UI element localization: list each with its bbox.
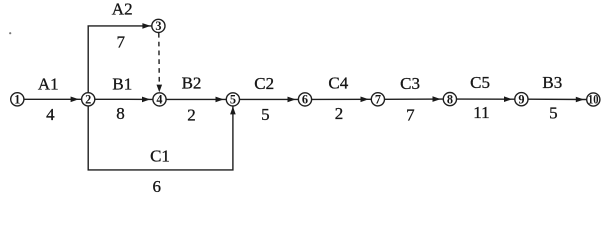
wire B1 edge 2-4: [95, 98, 153, 100]
arrowhead C4 into node 7: [361, 97, 369, 103]
arrowhead B2 into node 5: [216, 97, 224, 103]
arrowhead A2 into node 3: [142, 23, 150, 29]
svg-text:B2: B2: [182, 73, 202, 92]
svg-text:C3: C3: [400, 74, 420, 93]
svg-text:C4: C4: [328, 74, 348, 93]
wire C3 edge 7-8: [385, 98, 444, 100]
node 5: [226, 93, 239, 106]
svg-text:9: 9: [518, 92, 524, 106]
svg-text:A2: A2: [112, 0, 133, 18]
svg-text:8: 8: [447, 92, 453, 106]
node 10: [587, 93, 600, 106]
svg-text:8: 8: [116, 104, 125, 123]
svg-text:5: 5: [230, 93, 236, 107]
svg-text:10: 10: [588, 93, 599, 107]
svg-text:B3: B3: [542, 73, 562, 92]
wire C4 edge 6-7: [312, 98, 372, 100]
node 7: [371, 93, 384, 106]
svg-text:6: 6: [152, 177, 161, 196]
node 9: [515, 93, 528, 106]
arrowhead C3 into node 8: [433, 96, 441, 102]
node 8: [443, 93, 456, 106]
wire C5 edge 8-9: [457, 98, 515, 100]
arrowhead C5 into node 9: [504, 96, 512, 102]
node 6: [298, 93, 311, 106]
svg-text:4: 4: [156, 93, 162, 107]
svg-text:7: 7: [406, 105, 415, 124]
arrowhead C2 into node 6: [288, 97, 296, 103]
svg-text:5: 5: [261, 105, 270, 124]
svg-text:1: 1: [14, 93, 20, 107]
arrowhead A1 into node 2: [71, 97, 79, 103]
svg-text:2: 2: [335, 104, 344, 123]
arrowhead B1 into node 4: [142, 97, 150, 103]
wire A1 edge 1-2: [24, 98, 82, 100]
speck dot top-left: [9, 32, 11, 34]
svg-text:6: 6: [302, 93, 308, 107]
arrowhead B3 into node 10: [576, 97, 584, 103]
svg-text:5: 5: [549, 104, 558, 123]
svg-text:A1: A1: [38, 74, 59, 93]
wire C2 edge 5-6: [240, 98, 299, 100]
svg-text:11: 11: [473, 103, 489, 122]
svg-text:7: 7: [375, 93, 381, 107]
svg-text:7: 7: [117, 33, 126, 52]
wire dummy dashed edge 3-4: [158, 33, 161, 85]
wire C1 edge 2-5 bottom elbow: [88, 106, 233, 170]
svg-text:C1: C1: [150, 147, 170, 166]
svg-text:B1: B1: [112, 75, 132, 94]
svg-text:2: 2: [187, 106, 196, 125]
node 4: [153, 93, 166, 106]
node 1: [11, 93, 24, 106]
svg-text:C5: C5: [470, 73, 490, 92]
svg-text:3: 3: [155, 19, 161, 33]
svg-text:C2: C2: [254, 74, 274, 93]
svg-text:4: 4: [46, 105, 55, 124]
node 3: [152, 19, 165, 32]
arrowhead dummy into node 4: [157, 85, 163, 93]
wire B2 edge 4-5: [166, 98, 226, 100]
node 2: [82, 93, 95, 106]
wire A2 edge 2-3 elbow: [88, 26, 151, 93]
arrowhead C1 into node 5: [230, 106, 236, 114]
svg-text:2: 2: [85, 93, 91, 107]
wire B3 edge 9-10: [528, 98, 587, 100]
